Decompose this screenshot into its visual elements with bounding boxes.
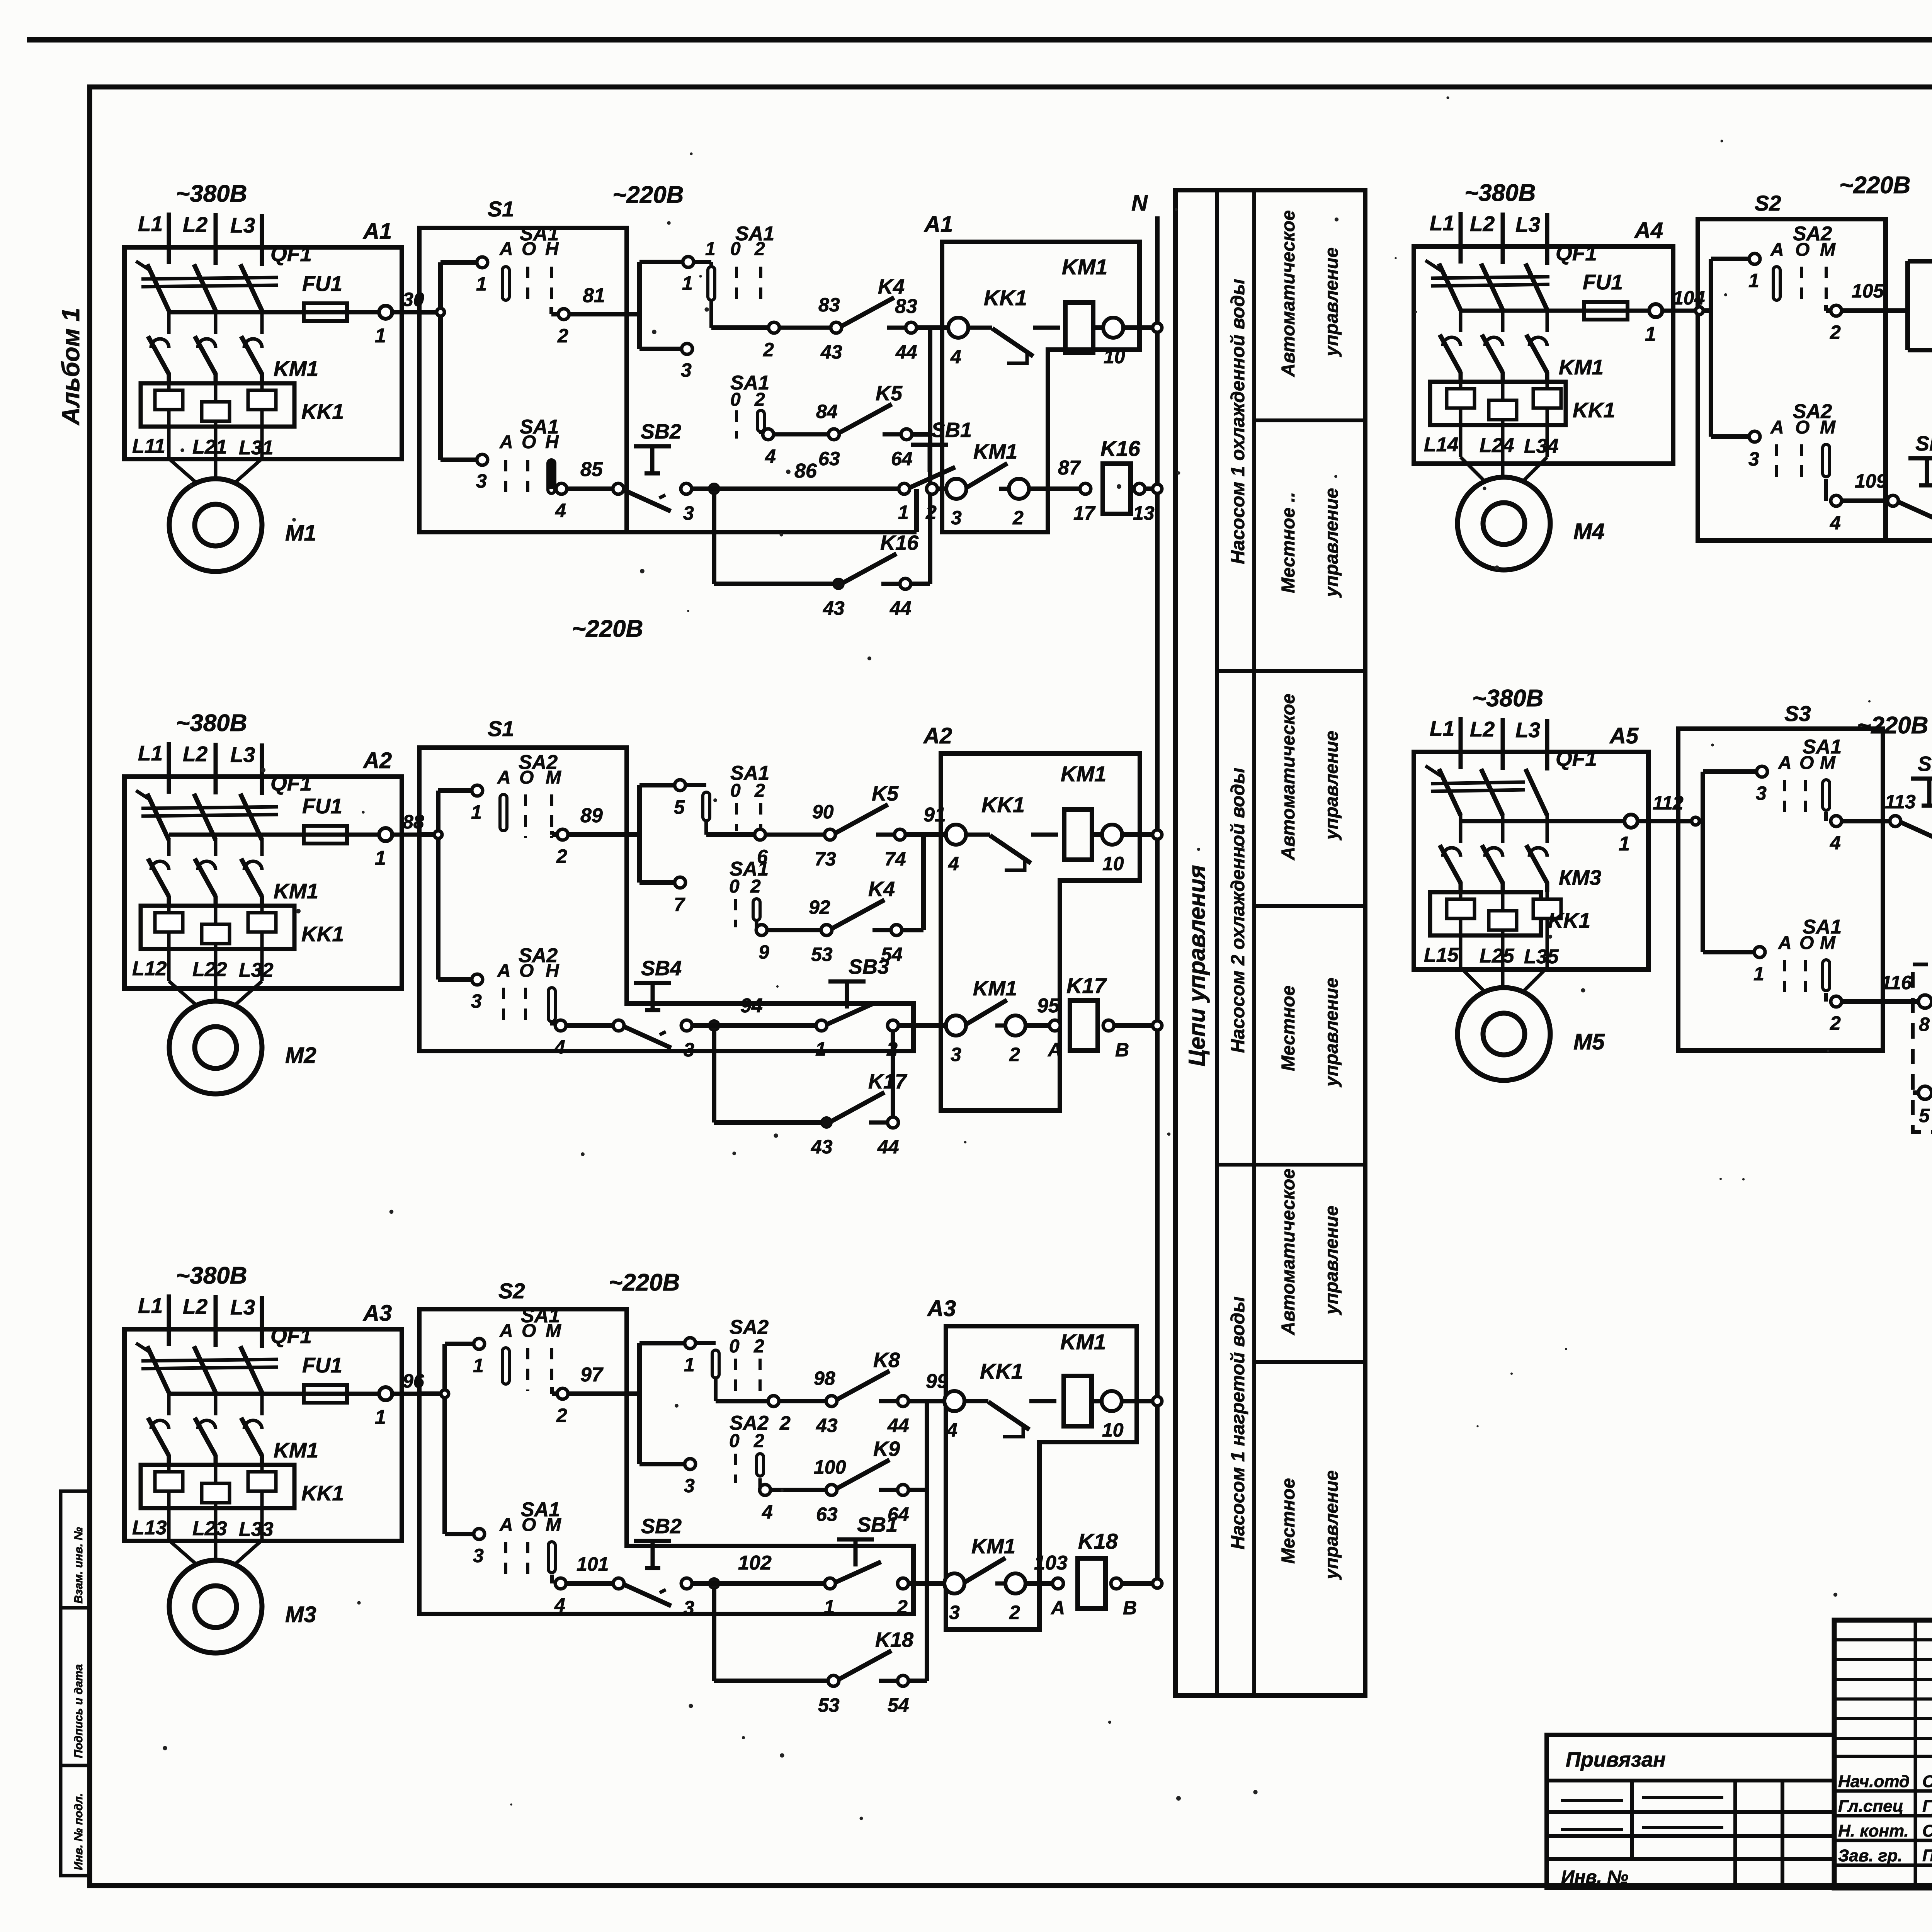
power supply label ~380V (M3) [176,1262,247,1289]
svg-text:Инв. № подл.: Инв. № подл. [72,1793,85,1870]
selector switch SA1 (M3) [499,1304,561,1391]
svg-text:2: 2 [1830,321,1841,343]
terminal 10 (M2) [1102,825,1162,874]
svg-text:~220В: ~220В [609,1269,680,1296]
wire 92 elbow (M2) [755,922,759,930]
relay contact K5 (M2) [755,782,906,870]
svg-text:53: 53 [811,944,833,965]
fuse FU1 (M3) [302,1353,347,1403]
left table header Cepi upravleniya [1184,865,1210,1066]
start button SB1 (M3) [824,1513,908,1618]
power supply label ~380V (M4) [1464,180,1536,206]
svg-text:L3: L3 [1515,213,1540,236]
relay coil K17 (M2) [1066,973,1107,1051]
thermal contact KK1 (M1) [968,286,1060,363]
voltage label ~220V (M4) [1839,172,1910,199]
sheet top edge line [27,37,1932,43]
svg-text:М: М [546,767,561,788]
wire 99 to A3 terminal 4 (M3) [908,1370,948,1401]
svg-text:K16: K16 [880,531,919,554]
wire 109 (M4) [1826,470,1888,534]
left table cell auto control 1 [1278,210,1342,377]
svg-text:3: 3 [951,1044,961,1065]
circuit breaker QF1 (M2) [136,771,312,840]
margin stamp box 2 [61,1608,90,1765]
svg-text:KK1: KK1 [301,922,344,946]
svg-text:Взам. инв. №: Взам. инв. № [72,1527,85,1604]
svg-text:L21: L21 [192,436,227,458]
svg-text:SB2: SB2 [1918,752,1932,776]
svg-text:0: 0 [730,781,741,801]
svg-text:54: 54 [888,1694,909,1716]
svg-text:SB4: SB4 [1915,432,1932,455]
contactor coil KM1 (M1) [1062,255,1107,353]
selector switch SA2 (M2) [497,944,560,1029]
motor M1 (M1) [169,479,316,571]
relay contact K17 (M2) [753,1070,908,1158]
svg-text:2: 2 [754,239,765,259]
svg-text:3: 3 [1756,782,1767,804]
svg-text:KK1: KK1 [1548,908,1590,932]
svg-text:4: 4 [555,500,566,521]
svg-text:управление: управление [1321,1470,1342,1580]
wire 101 (M3) [552,1553,614,1616]
svg-text:L3: L3 [1515,718,1540,742]
svg-text:8: 8 [1919,1014,1930,1035]
svg-text:4: 4 [554,1594,565,1616]
selector switch SA1 (M1) [730,372,769,439]
svg-text:2: 2 [557,325,568,347]
junction on wire 86 (M1) [692,460,900,494]
svg-text:1: 1 [1753,963,1764,985]
selector switch SA2 (M4) [1770,223,1836,307]
relay contact K5 (M1) [763,382,913,469]
pole conductors (M2) [169,838,262,856]
thermal overload KK1 (M5) [1430,892,1590,935]
wire 87 (M1) [1029,457,1096,524]
wire to node 4 (M2) [552,1020,614,1058]
svg-text:Привязан: Привязан [1566,1748,1666,1771]
svg-text:9: 9 [759,941,769,963]
svg-text:Автоматическое: Автоматическое [1278,1168,1299,1335]
circuit breaker QF1 (M5) [1425,747,1597,815]
contact arcs (M2) [151,861,262,870]
svg-text:М: М [1820,240,1836,260]
svg-text:A5: A5 [1609,723,1639,748]
svg-text:KM1: KM1 [1559,355,1604,379]
svg-text:L3: L3 [230,743,255,767]
svg-text:S1: S1 [488,197,514,221]
latch wire to rail (M1) [910,582,930,586]
motor M5 (M5) [1458,988,1605,1080]
svg-text:А: А [497,767,511,788]
selector switch SA1 (M5) [1778,736,1842,817]
contact arcs (M1) [151,339,262,348]
svg-text:Гусис: Гусис [1922,1797,1932,1816]
svg-text:3: 3 [681,359,692,381]
terminal 10 (M1) [1103,318,1162,367]
svg-text:SB1: SB1 [931,418,972,442]
motor M3 (M3) [169,1560,316,1653]
svg-text:А: А [1770,240,1784,260]
svg-text:K4: K4 [868,878,895,901]
svg-text:L2: L2 [1470,717,1495,741]
svg-text:Автоматическое: Автоматическое [1278,694,1299,861]
module box A5 (M5) [1414,723,1648,969]
switch box S1 (M1) [419,197,917,532]
wire to node 3 upper (M5) [1703,766,1767,804]
wire to node 1 (M4) [1711,253,1760,291]
svg-text:управление: управление [1321,731,1342,840]
svg-text:О: О [519,961,534,981]
svg-text:L2: L2 [183,1294,208,1318]
relay contact K4 (M2) [756,878,903,965]
motor feeder labels L13 L23 L33 (M3) [132,1517,274,1541]
svg-text:4: 4 [762,1501,773,1523]
pole conductors (M1) [169,309,262,334]
svg-text:KM1: KM1 [973,440,1017,463]
node 2 label (M3) [779,1412,791,1434]
svg-text:2: 2 [779,1412,791,1434]
svg-text:QF1: QF1 [1556,747,1597,770]
relay contact K16 (M1) [765,531,919,619]
svg-text:Сиганова: Сиганова [1922,1821,1932,1840]
contactor coil KM1 (M3) [1060,1330,1106,1426]
contact arcs (M5) [1443,848,1547,857]
svg-text:105: 105 [1852,280,1884,302]
svg-text:Местное: Местное [1278,1478,1299,1564]
svg-text:0: 0 [730,389,741,410]
svg-text:5: 5 [1919,1105,1930,1126]
wire to node 1 (M3) [445,1338,485,1376]
svg-text:FU1: FU1 [302,1353,342,1377]
phase labels L1 L2 L3 (M3) [138,1294,262,1348]
left control-function table grid [1175,190,1365,1696]
contactor KM1 main contacts (M2) [148,859,318,906]
svg-text:SB4: SB4 [641,957,682,980]
svg-text:Парамонов: Парамонов [1922,1846,1932,1865]
selector contact capsule (M3) [695,1343,769,1401]
wire to node 1 (M1) [440,257,488,295]
svg-text:4: 4 [1830,512,1841,534]
svg-text:7: 7 [674,894,685,915]
svg-text:О: О [1799,933,1814,953]
contact output rail (M1) [928,328,932,584]
pole conductors (M4) [1461,308,1547,332]
contactor aux contact KM1 (M2) [946,977,1026,1065]
svg-text:1: 1 [1619,833,1630,855]
contactor coil KM1 (M2) [1061,762,1106,860]
svg-text:K9: K9 [873,1437,900,1461]
svg-text:43: 43 [820,341,842,363]
wire 88 junction (M2) [419,791,442,980]
svg-text:M5: M5 [1573,1029,1605,1054]
svg-text:1: 1 [476,273,487,295]
wire 96 junction (M3) [419,1344,449,1534]
svg-text:S2: S2 [1755,191,1781,215]
wire 105 (M4) [1826,280,1908,343]
svg-text:113: 113 [1885,791,1916,813]
margin stamp box 3 [61,1765,90,1876]
svg-text:~380В: ~380В [176,180,247,207]
module box A4 (M4) [1414,218,1673,464]
svg-text:98: 98 [814,1367,835,1389]
svg-text:90: 90 [812,801,834,823]
left table cell local control 1 [1278,488,1342,598]
svg-text:М: М [1820,417,1836,438]
selector switch SA1 (M3) [499,1498,561,1580]
svg-text:10: 10 [1104,346,1125,367]
svg-text:89: 89 [580,804,603,827]
left table cell auto control 3 [1278,1168,1342,1335]
svg-text:L1: L1 [138,741,163,765]
thermal overload KK1 (M1) [141,383,344,427]
svg-text:А: А [1778,933,1792,953]
svg-text:L25: L25 [1480,945,1515,967]
junction on wire 94 (M2) [693,995,817,1031]
control tap wire 104 (M4) [1461,309,1649,313]
svg-text:97: 97 [580,1364,604,1386]
phase labels L1 L2 L3 (M5) [1430,716,1547,770]
svg-text:100: 100 [814,1456,846,1478]
svg-text:SB2: SB2 [641,1515,682,1538]
left table cell local control 2 [1278,978,1342,1087]
svg-text:2: 2 [1009,1602,1020,1623]
svg-text:86: 86 [794,460,817,482]
svg-text:О: О [519,767,534,788]
svg-text:А: А [1778,753,1792,773]
svg-text:L34: L34 [1524,435,1559,457]
svg-text:M2: M2 [285,1043,316,1068]
svg-text:73: 73 [815,848,836,870]
selector contact capsule (M2) [685,785,756,835]
junction on wire 102 (M3) [693,1552,825,1589]
svg-text:FU1: FU1 [302,272,342,296]
wire to N (M2) [1103,1020,1162,1061]
relay contact K4 (M1) [769,275,917,363]
wire 84 elbow (M1) [761,433,764,434]
svg-text:2: 2 [754,781,765,801]
svg-text:В: В [1115,1039,1129,1061]
svg-text:KK1: KK1 [984,286,1027,310]
svg-text:17: 17 [1073,502,1096,524]
wire 84 to rail (M1) [912,432,930,437]
control tap wire 112 (M5) [1461,819,1672,823]
selector feed rail nodes 5,7 (M2) [639,780,685,915]
contactor KM1 main contacts (M1) [148,336,318,383]
svg-text:5: 5 [674,796,685,818]
svg-text:М: М [1820,753,1836,773]
svg-text:3: 3 [949,1602,960,1623]
svg-text:M4: M4 [1573,519,1605,544]
svg-text:Альбом 1: Альбом 1 [57,308,85,426]
svg-text:63: 63 [816,1503,838,1525]
left table row pump2 cooled [1228,768,1248,1053]
pole conductors (M5) [1461,814,1547,843]
module box A2 (M2) [124,748,402,988]
svg-text:3: 3 [473,1545,484,1566]
svg-text:В: В [1123,1597,1137,1619]
svg-text:85: 85 [580,458,603,481]
svg-text:А: А [1047,1039,1062,1061]
svg-text:116: 116 [1881,972,1912,993]
svg-text:K16: K16 [1100,436,1141,461]
svg-text:SB3: SB3 [849,955,889,978]
svg-text:~220В: ~220В [1857,712,1928,739]
wire 89 (M2) [552,804,639,867]
wire to node 3 lower (M3) [445,1529,485,1566]
svg-text:3: 3 [476,470,487,492]
svg-text:A2: A2 [923,723,952,748]
svg-text:L33: L33 [239,1518,274,1541]
selector switch SA1 (M1) [705,223,774,307]
svg-text:2: 2 [896,1596,908,1618]
phase labels L1 L2 L3 (M4) [1430,211,1547,265]
svg-text:KK1: KK1 [980,1359,1023,1383]
power supply label ~380V (M1) [176,180,247,207]
control tap wire 88 (M2) [169,833,379,837]
fuse FU1 (M1) [302,272,347,321]
svg-text:3: 3 [684,1475,695,1497]
svg-text:63: 63 [818,448,840,469]
svg-text:L35: L35 [1524,946,1559,968]
svg-text:43: 43 [816,1415,838,1436]
switch box S2 (M3) [419,1279,913,1614]
wire 116 (M5) [1826,972,1920,1034]
svg-text:K18: K18 [1078,1529,1118,1553]
svg-text:управление: управление [1321,1206,1342,1315]
selector switch SA2 (M2) [497,751,561,838]
svg-text:83: 83 [818,294,840,316]
selector switch SA2 (M4) [1770,400,1836,484]
wires to motor (M3) [169,1508,262,1565]
latch branch wire (M3) [714,1588,829,1681]
svg-text:K17: K17 [1066,973,1107,998]
svg-text:KM1: KM1 [1062,255,1107,279]
svg-text:Гл.спец: Гл.спец [1838,1797,1903,1816]
svg-text:L2: L2 [1470,212,1495,236]
svg-text:4: 4 [554,1036,565,1058]
svg-text:L2: L2 [183,742,208,766]
svg-text:Н: Н [545,432,559,452]
wires to motor (M4) [1461,425,1547,482]
selector switch SA1 (M2) [730,762,769,831]
svg-text:SA2: SA2 [730,1316,769,1338]
svg-text:KM1: KM1 [274,357,318,381]
svg-text:L22: L22 [192,958,227,981]
svg-text:4: 4 [950,346,961,367]
svg-text:2: 2 [753,1431,764,1451]
svg-text:L11: L11 [132,435,165,457]
svg-text:K17: K17 [868,1070,908,1093]
svg-text:K18: K18 [875,1628,913,1651]
svg-text:43: 43 [811,1136,833,1158]
svg-text:Местное ..: Местное .. [1278,492,1299,593]
stop button SB4 (M2) [613,957,694,1061]
svg-text:~380В: ~380В [176,710,247,736]
svg-text:О: О [522,239,536,259]
motor M4 (M4) [1458,477,1605,570]
wire 91 to A2 terminal 4 (M2) [905,804,946,835]
svg-text:QF1: QF1 [270,771,312,795]
svg-text:S2: S2 [498,1279,525,1303]
svg-text:~220В: ~220В [612,182,684,208]
level contact VU (M5) [1918,966,1932,1035]
title block signature table [1834,1620,1932,1888]
circuit breaker QF1 (M1) [136,242,312,311]
latch wire to rail (M3) [908,1679,927,1683]
relay contact K8 (M3) [768,1349,909,1436]
left table row pump1 cooled [1228,279,1248,564]
svg-text:2: 2 [556,845,567,867]
node 1 (M1) [375,289,424,347]
svg-text:L14: L14 [1424,434,1459,456]
svg-text:Семин: Семин [1922,1772,1932,1791]
svg-text:53: 53 [818,1694,840,1716]
svg-text:Н: Н [545,239,559,259]
svg-text:А: А [499,1515,513,1535]
svg-text:1: 1 [815,1038,826,1060]
selector switch SA1 (M1) [499,416,559,500]
svg-text:Н. конт.: Н. конт. [1838,1821,1909,1840]
contactor КМ3 main contacts (M5) [1440,845,1601,892]
latch branch wire (M2) [714,1031,822,1122]
selector switch SA1 (M1) [499,223,559,307]
terminal 4 (M3) [944,1391,964,1441]
svg-text:1: 1 [682,272,693,294]
svg-text:0: 0 [729,876,740,897]
voltage label ~220V (M1) [612,182,684,208]
module box A1 control (M1) [923,212,1139,532]
phase labels L1 L2 L3 (M1) [138,212,262,266]
svg-text:Подпись и дата: Подпись и дата [72,1664,85,1758]
stop button SB4 (M4) [1888,432,1932,536]
margin stamp box 1 [61,1491,90,1608]
svg-text:2: 2 [763,339,774,361]
svg-text:FU1: FU1 [302,794,342,818]
svg-text:М: М [1820,933,1836,953]
wire 83 from selector (M1) [692,262,770,328]
svg-text:L2: L2 [183,213,208,236]
pole conductors (M3) [169,1391,262,1415]
relay coil K16 (M1) [1100,436,1141,514]
svg-text:1: 1 [473,1355,484,1376]
svg-text:Автоматическое: Автоматическое [1278,210,1299,377]
svg-text:1: 1 [375,325,386,347]
selector switch SA2 (M3) [729,1316,769,1391]
latch wire up (M2) [891,1031,895,1117]
svg-text:А: А [499,1321,513,1341]
level contact NU (M5) [1913,1058,1932,1126]
wire 81 (M1) [551,284,639,347]
svg-text:44: 44 [895,341,917,363]
thermal overload KK1 (M4) [1430,382,1615,425]
svg-text:А: А [1050,1597,1065,1619]
svg-text:1: 1 [1645,323,1656,345]
motor feeder labels L15 L25 L35 (M5) [1424,944,1559,968]
svg-text:KM1: KM1 [1061,762,1106,786]
svg-text:Местное: Местное [1278,985,1299,1071]
svg-text:2: 2 [1012,507,1024,529]
svg-text:A4: A4 [1634,218,1663,243]
svg-text:2: 2 [753,1336,764,1357]
svg-text:М: М [546,1321,561,1341]
stop button SB2 (M1) [613,420,694,524]
svg-text:81: 81 [583,284,605,307]
svg-text:0: 0 [729,1336,740,1357]
svg-text:74: 74 [884,848,906,870]
svg-text:Инв. №: Инв. № [1561,1867,1628,1888]
